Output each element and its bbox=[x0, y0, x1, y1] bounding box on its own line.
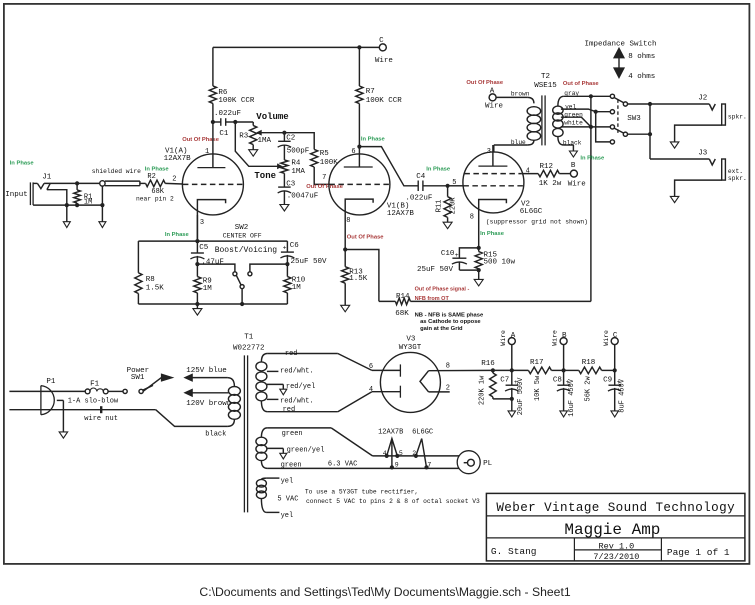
potentiometer R3 (volume) bbox=[250, 126, 257, 145]
label suppressor note bbox=[486, 218, 588, 225]
svg-text:1K 2w: 1K 2w bbox=[539, 180, 562, 188]
svg-text:1-A slo-blow: 1-A slo-blow bbox=[68, 397, 119, 405]
wire red to V3 pin4 bbox=[338, 392, 401, 412]
svg-text:3: 3 bbox=[200, 219, 204, 227]
svg-text:500pF: 500pF bbox=[287, 147, 310, 155]
svg-text:Page 1 of 1: Page 1 of 1 bbox=[667, 547, 730, 558]
label .022uF (C4) bbox=[405, 195, 432, 203]
ground (J2) bbox=[670, 142, 679, 148]
svg-text:1M: 1M bbox=[203, 285, 213, 293]
svg-text:brown: brown bbox=[511, 90, 530, 97]
svg-text:In Phase: In Phase bbox=[580, 156, 605, 162]
label green/yel bbox=[287, 447, 325, 455]
wire red to V3 pin6 bbox=[338, 354, 401, 371]
jack J3 bbox=[650, 159, 725, 180]
wire J1 sleeve ground rail bbox=[33, 204, 102, 206]
resistor R5 bbox=[311, 149, 318, 167]
label Out of Phase (gray) bbox=[563, 81, 600, 87]
svg-text:C2: C2 bbox=[286, 135, 295, 143]
jack J2 label bbox=[698, 95, 707, 103]
label C2 500pF bbox=[286, 135, 309, 156]
svg-text:as Cathode to oppose: as Cathode to oppose bbox=[420, 319, 481, 325]
pin 3 label V2 bbox=[487, 148, 491, 156]
label Out Of Phase (T2 A) bbox=[466, 80, 503, 86]
label yel (top) bbox=[281, 478, 294, 486]
ground (C9) bbox=[611, 411, 619, 417]
svg-text:100K CCR: 100K CCR bbox=[366, 97, 403, 105]
node V2 cathode bbox=[477, 246, 481, 250]
wire C1 node to tone wiper bbox=[235, 122, 281, 168]
svg-text:Wire: Wire bbox=[552, 330, 559, 346]
svg-text:25uF 50V: 25uF 50V bbox=[291, 258, 328, 266]
wire rail to R18 bbox=[564, 369, 579, 371]
svg-text:Maggie Amp: Maggie Amp bbox=[564, 521, 660, 539]
svg-text:20uF 500V: 20uF 500V bbox=[517, 377, 525, 416]
svg-text:C6: C6 bbox=[290, 242, 300, 250]
wire red/yel tap + ground bbox=[267, 384, 287, 394]
label green (bottom) bbox=[281, 461, 302, 469]
capacitor C4 bbox=[418, 181, 447, 192]
svg-text:Out of Phase signal -: Out of Phase signal - bbox=[415, 286, 470, 292]
label C8 + bbox=[553, 377, 570, 387]
label R13 1.5K bbox=[349, 269, 368, 283]
svg-text:SW1: SW1 bbox=[131, 374, 145, 382]
label yel bbox=[565, 103, 576, 110]
label 20uF 500V bbox=[517, 377, 525, 416]
wire SW3 common1 to J2 bbox=[628, 102, 710, 106]
wire to V2 grid bbox=[448, 185, 464, 187]
heater 12AX7B bbox=[385, 439, 400, 470]
label In Phase (C4) bbox=[426, 167, 451, 173]
label R17 bbox=[530, 359, 544, 367]
svg-text:C9: C9 bbox=[603, 377, 612, 385]
svg-text:yel: yel bbox=[281, 478, 294, 486]
svg-text:In Phase: In Phase bbox=[361, 137, 386, 143]
svg-text:25uF 50V: 25uF 50V bbox=[417, 266, 454, 274]
wire NFB vertical bbox=[590, 96, 592, 301]
svg-text:red/yel: red/yel bbox=[286, 383, 315, 391]
resistor R7 bbox=[356, 86, 363, 104]
label Volume bbox=[256, 112, 288, 122]
resistor R13 bbox=[342, 250, 349, 306]
resistor R10 bbox=[284, 264, 291, 304]
wire black bbox=[564, 145, 574, 151]
svg-text:wire nut: wire nut bbox=[84, 415, 118, 423]
svg-text:In Phase: In Phase bbox=[165, 232, 190, 238]
label shielded wire bbox=[92, 168, 141, 175]
label R4 1MA bbox=[291, 160, 305, 176]
label black (T1) bbox=[205, 431, 226, 439]
potentiometer R4 (tone) bbox=[281, 160, 288, 173]
label 8uF 450V bbox=[619, 378, 627, 412]
svg-text:120V brown: 120V brown bbox=[186, 400, 231, 408]
label 68K (R14) bbox=[395, 310, 409, 318]
svg-text:yel: yel bbox=[281, 512, 294, 520]
label Out of Phase signal NFB from OT bbox=[415, 286, 470, 302]
label R3 1MA bbox=[239, 132, 271, 145]
label 220K 1w bbox=[479, 375, 487, 405]
svg-text:C4: C4 bbox=[416, 173, 426, 181]
label Tone bbox=[254, 171, 276, 181]
svg-text:Out of Phase: Out of Phase bbox=[563, 81, 600, 87]
svg-text:C: C bbox=[613, 332, 618, 340]
pin 8 label V3 bbox=[446, 362, 450, 370]
wire SW2 top rail bbox=[138, 239, 287, 243]
label R2 bbox=[147, 173, 155, 181]
switch SW1 label bbox=[127, 367, 150, 382]
svg-text:spkr.: spkr. bbox=[728, 114, 747, 121]
svg-text:C:\Documents and Settings\Ted\: C:\Documents and Settings\Ted\My Documen… bbox=[199, 585, 570, 599]
wire R6 top bbox=[212, 47, 214, 86]
wire V1B plate to C4 bbox=[359, 147, 418, 186]
svg-text:black: black bbox=[205, 431, 226, 439]
label In Phase (V1A cathode) bbox=[165, 232, 190, 238]
svg-text:A: A bbox=[511, 332, 516, 340]
svg-text:Out Of Phase: Out Of Phase bbox=[306, 184, 343, 190]
label In Phase (NFB) bbox=[580, 156, 605, 162]
svg-text:J1: J1 bbox=[42, 174, 52, 182]
resistor R8 bbox=[135, 241, 142, 304]
terminal B Wire (supply) bbox=[552, 330, 567, 370]
pin 7 label V1B bbox=[322, 174, 326, 182]
T1 primary winding bbox=[227, 378, 240, 427]
label red (bottom) bbox=[283, 406, 296, 414]
svg-text:.022uF: .022uF bbox=[214, 110, 241, 118]
ground (T2 black) bbox=[569, 151, 577, 157]
svg-text:12AX7B: 12AX7B bbox=[378, 429, 403, 437]
svg-text:16uF 450V: 16uF 450V bbox=[568, 378, 576, 417]
svg-text:C1: C1 bbox=[219, 130, 229, 138]
svg-text:R4: R4 bbox=[291, 160, 301, 168]
switch SW2 bbox=[197, 264, 287, 304]
label 5Y3GT note bbox=[305, 489, 480, 505]
connection arrow 120V brown bbox=[185, 389, 229, 396]
pin 6 label V1B bbox=[351, 148, 355, 156]
label yel (bottom) bbox=[281, 512, 294, 520]
capacitor C5 bbox=[190, 241, 204, 266]
svg-text:G. Stang: G. Stang bbox=[491, 546, 537, 557]
terminal A Wire (supply) bbox=[500, 330, 516, 370]
svg-text:.47uF: .47uF bbox=[201, 259, 224, 267]
T2 core bbox=[542, 95, 545, 145]
label C6 25uF 50V bbox=[290, 242, 327, 266]
node V1B cathode bbox=[343, 247, 347, 251]
node V2 grid bbox=[446, 184, 450, 188]
junctions input rail bbox=[65, 181, 105, 207]
svg-text:C10: C10 bbox=[441, 250, 455, 258]
label 8 ohms bbox=[628, 53, 655, 61]
svg-text:T1: T1 bbox=[244, 333, 254, 341]
ground (SW2 rail) bbox=[193, 304, 202, 315]
svg-text:CENTER OFF: CENTER OFF bbox=[223, 233, 262, 240]
wire R7 top bbox=[358, 47, 360, 86]
svg-text:68K: 68K bbox=[395, 310, 409, 318]
T1 core bbox=[244, 355, 247, 512]
svg-text:100K CCR: 100K CCR bbox=[218, 97, 255, 105]
capacitor C3 bbox=[278, 173, 292, 193]
ground (jack sleeve) bbox=[63, 205, 70, 227]
resistor R2 with wires bbox=[140, 180, 183, 187]
svg-text:Wire: Wire bbox=[568, 180, 586, 188]
wire C2 to R4 bbox=[283, 145, 285, 160]
svg-text:Out Of Phase: Out Of Phase bbox=[347, 235, 384, 241]
label 10K 5w bbox=[534, 375, 542, 401]
svg-text:2: 2 bbox=[172, 176, 176, 184]
label brown bbox=[511, 90, 530, 97]
capacitor C9 bbox=[608, 370, 622, 411]
shielded wire symbol bbox=[100, 181, 140, 186]
svg-text:Impedance Switch: Impedance Switch bbox=[585, 40, 657, 48]
T1 6.3V winding bbox=[256, 428, 331, 469]
pin 2 label V1A bbox=[172, 176, 176, 184]
wire heater top bbox=[331, 428, 459, 456]
capacitor C10 bbox=[452, 248, 479, 270]
wire R14 to OT bbox=[410, 300, 591, 302]
label 1-A slo-blow bbox=[68, 397, 119, 405]
wire to R3 top bbox=[235, 122, 253, 126]
wire gray tap bbox=[564, 94, 611, 98]
svg-text:In Phase: In Phase bbox=[426, 167, 451, 173]
fuse F1 bbox=[85, 388, 108, 394]
svg-text:R16: R16 bbox=[481, 360, 495, 368]
svg-text:connect 5 VAC to pins 2 & 8 of: connect 5 VAC to pins 2 & 8 of octal soc… bbox=[306, 498, 480, 505]
svg-text:R17: R17 bbox=[530, 359, 544, 367]
label R15 500 10w bbox=[484, 252, 516, 267]
plug P1 label bbox=[46, 378, 56, 386]
svg-text:PL: PL bbox=[483, 460, 493, 468]
wire green tap bbox=[561, 117, 591, 127]
capacitor C8 bbox=[557, 370, 571, 411]
resistor R17 bbox=[528, 367, 551, 374]
svg-text:8uF 450V: 8uF 450V bbox=[619, 378, 627, 412]
svg-text:7/23/2010: 7/23/2010 bbox=[593, 552, 639, 562]
svg-text:1.5K: 1.5K bbox=[349, 275, 368, 283]
ground (R13) bbox=[341, 305, 350, 312]
svg-text:6.3 VAC: 6.3 VAC bbox=[328, 461, 357, 469]
wire line hot bbox=[9, 390, 85, 392]
label C5 .47uF bbox=[199, 244, 224, 266]
resistor R14 bbox=[379, 298, 411, 305]
fuse F1 label bbox=[90, 380, 100, 388]
label V1(A) 12AX7B bbox=[164, 148, 192, 164]
pin 5 label V2 bbox=[452, 179, 456, 187]
svg-text:9: 9 bbox=[395, 461, 399, 468]
svg-text:220K 1w: 220K 1w bbox=[479, 375, 487, 405]
svg-text:SW3: SW3 bbox=[627, 115, 641, 123]
pentode V2 bbox=[463, 145, 524, 248]
resistor R6 bbox=[209, 86, 216, 104]
connection arrow 125V blue bbox=[185, 374, 228, 381]
svg-text:6L6GC: 6L6GC bbox=[412, 429, 433, 437]
T2 primary winding bbox=[494, 97, 541, 145]
wire B+ top rail bbox=[213, 45, 379, 49]
label 56K 2w bbox=[584, 376, 592, 402]
wire SW3 common2 bbox=[628, 133, 651, 135]
wire heater bottom bbox=[267, 467, 459, 469]
switch SW3 bbox=[610, 94, 627, 144]
connection arrow (hot) bbox=[161, 374, 172, 381]
triode V1(B) bbox=[329, 147, 390, 250]
svg-text:1MA: 1MA bbox=[258, 137, 272, 145]
svg-text:Wire: Wire bbox=[375, 57, 393, 65]
svg-text:NB - NFB is SAME phase: NB - NFB is SAME phase bbox=[415, 312, 484, 318]
label V1(B) 12AX7B bbox=[387, 203, 415, 219]
label 120V brown bbox=[186, 400, 231, 408]
svg-text:8: 8 bbox=[446, 362, 450, 370]
svg-text:P1: P1 bbox=[46, 378, 56, 386]
svg-text:red/wht.: red/wht. bbox=[280, 398, 314, 406]
label R12 1K 2w bbox=[539, 163, 562, 188]
label red (top) bbox=[285, 350, 298, 358]
label red/yel bbox=[286, 383, 315, 391]
resistor R15 bbox=[475, 248, 482, 272]
ground (C3) bbox=[280, 190, 289, 211]
svg-text:7: 7 bbox=[322, 174, 326, 182]
svg-text:A: A bbox=[490, 87, 495, 95]
wire V1A cathode down bbox=[196, 215, 198, 241]
terminal C Wire (top) bbox=[375, 37, 393, 65]
svg-text:F1: F1 bbox=[90, 380, 100, 388]
svg-text:T2: T2 bbox=[541, 73, 550, 81]
wire volume node to R5 bbox=[284, 133, 314, 150]
switch SW1 bbox=[123, 385, 153, 393]
label 4 ohms bbox=[628, 73, 655, 81]
pin 2 label V3 bbox=[446, 385, 450, 393]
svg-text:6L6GC: 6L6GC bbox=[520, 208, 543, 216]
label V2 6L6GC bbox=[520, 201, 543, 217]
svg-text:8: 8 bbox=[470, 213, 474, 221]
wire SW2 bottom rail bbox=[138, 302, 287, 306]
svg-text:R12: R12 bbox=[540, 163, 554, 171]
wire rail R16-C7 bbox=[493, 368, 514, 372]
svg-text:WSE15: WSE15 bbox=[534, 82, 557, 90]
svg-text:10K 5w: 10K 5w bbox=[534, 375, 542, 401]
jack J1 label bbox=[42, 174, 52, 182]
svg-text:R10: R10 bbox=[292, 276, 306, 284]
svg-text:C3: C3 bbox=[286, 180, 296, 188]
svg-text:C: C bbox=[379, 37, 384, 45]
label Impedance Switch bbox=[585, 40, 657, 48]
label black bbox=[563, 140, 582, 147]
jack J2 bbox=[709, 104, 725, 125]
label spkr. bbox=[728, 114, 747, 121]
pilot light PL bbox=[457, 451, 480, 474]
wire rail R17-C8 bbox=[551, 368, 565, 372]
wire V3 pin2 stub bbox=[429, 391, 450, 393]
caption file path bbox=[199, 585, 570, 599]
T1 5V winding bbox=[256, 478, 279, 512]
svg-text:2: 2 bbox=[412, 450, 416, 457]
pin 4 label V3 bbox=[369, 386, 373, 394]
svg-text:B: B bbox=[571, 162, 576, 170]
svg-text:12AX7B: 12AX7B bbox=[164, 155, 192, 163]
label PL bbox=[483, 460, 493, 468]
svg-text:1.5K: 1.5K bbox=[146, 284, 165, 292]
label 12AX7B 6L6GC heaters bbox=[378, 429, 433, 437]
svg-text:C5: C5 bbox=[199, 244, 209, 252]
label V3 WY3GT bbox=[399, 336, 422, 353]
svg-text:SW2: SW2 bbox=[235, 224, 249, 232]
svg-text:8: 8 bbox=[346, 217, 350, 225]
svg-text:.022uF: .022uF bbox=[405, 195, 432, 203]
svg-text:56K 2w: 56K 2w bbox=[584, 376, 592, 402]
svg-text:To use a 5Y3GT tube rectifier,: To use a 5Y3GT tube rectifier, bbox=[305, 489, 418, 496]
svg-text:3: 3 bbox=[487, 148, 491, 156]
wire rail R18-C9 bbox=[602, 368, 617, 372]
label C1 bbox=[219, 130, 229, 138]
label red/wht. (2) bbox=[280, 398, 314, 406]
label Input bbox=[5, 191, 28, 199]
label C3 .0047uF bbox=[286, 180, 318, 200]
wire red/wht tap1 bbox=[267, 370, 279, 372]
ground (shield) bbox=[99, 186, 106, 227]
wire NFB to R14 bbox=[345, 250, 379, 302]
svg-text:5 VAC: 5 VAC bbox=[277, 496, 298, 504]
wire R7 to V1B plate bbox=[357, 104, 361, 149]
wire white tap bbox=[561, 125, 611, 129]
resistor R16 bbox=[490, 370, 512, 399]
svg-text:4: 4 bbox=[369, 386, 373, 394]
svg-text:Wire: Wire bbox=[603, 330, 610, 346]
label R1 1M bbox=[84, 193, 92, 206]
label T1 W022772 bbox=[233, 333, 265, 352]
svg-text:C8: C8 bbox=[553, 377, 562, 385]
pin 8 label V2 bbox=[470, 213, 474, 221]
wire blue to V2 plate bbox=[493, 145, 495, 153]
svg-text:In Phase: In Phase bbox=[10, 161, 35, 167]
label R6 100K CCR bbox=[218, 89, 255, 105]
label 25uF 50V (C10) bbox=[417, 266, 454, 274]
svg-text:R2: R2 bbox=[147, 173, 155, 181]
resistor R12 bbox=[521, 170, 570, 177]
label green bbox=[564, 111, 583, 118]
wire fuse to SW1 bbox=[108, 390, 123, 392]
svg-text:V3: V3 bbox=[406, 336, 416, 344]
svg-text:6: 6 bbox=[369, 363, 373, 371]
svg-text:green/yel: green/yel bbox=[287, 447, 325, 455]
label .022uF (C1) bbox=[214, 110, 241, 118]
label 5 VAC bbox=[277, 496, 298, 504]
wire SW1 to arrow bbox=[143, 378, 162, 393]
pin 3 label V1A bbox=[200, 219, 204, 227]
svg-text:Tone: Tone bbox=[254, 171, 276, 181]
node C1 out bbox=[233, 120, 237, 124]
capacitor C1 bbox=[213, 118, 235, 126]
svg-text:WY3GT: WY3GT bbox=[399, 344, 422, 352]
input jack J1 bbox=[30, 182, 66, 205]
svg-text:.0047uF: .0047uF bbox=[287, 192, 319, 200]
label C4 bbox=[416, 173, 426, 181]
pin 8 label V1B bbox=[346, 217, 350, 225]
label blue bbox=[511, 139, 526, 146]
label C7 + bbox=[500, 377, 518, 387]
label In Phase (V2 cathode) bbox=[480, 231, 505, 237]
label 125V blue bbox=[186, 367, 227, 375]
terminal A Wire bbox=[485, 87, 503, 110]
label In Phase (R2) bbox=[145, 167, 170, 173]
svg-text:shielded wire: shielded wire bbox=[92, 168, 141, 175]
wire yel tap bbox=[561, 109, 611, 114]
label T2 WSE15 bbox=[534, 73, 557, 90]
svg-text:Out Of Phase: Out Of Phase bbox=[466, 80, 503, 86]
svg-text:R18: R18 bbox=[582, 359, 596, 367]
label NB note bbox=[415, 312, 484, 332]
pin 4 label V2 bbox=[526, 167, 530, 175]
label R18 bbox=[582, 359, 596, 367]
ground (R15) bbox=[474, 270, 483, 286]
svg-text:red: red bbox=[283, 406, 296, 414]
rectifier V3 bbox=[380, 352, 440, 412]
